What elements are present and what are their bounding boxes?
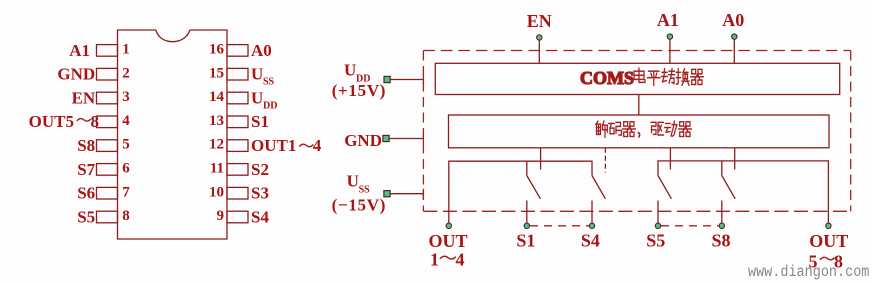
- svg-text:EN: EN: [72, 88, 96, 107]
- svg-text:(+15V): (+15V): [332, 81, 387, 100]
- svg-text:S1: S1: [516, 231, 535, 251]
- svg-text:U: U: [347, 172, 359, 191]
- svg-text:12: 12: [209, 137, 224, 153]
- svg-text:GND: GND: [57, 65, 95, 84]
- svg-text:S8: S8: [77, 136, 95, 155]
- svg-text:1: 1: [430, 250, 439, 270]
- svg-text:SS: SS: [263, 77, 275, 88]
- svg-text:13: 13: [209, 113, 224, 129]
- svg-text:2: 2: [122, 65, 130, 81]
- svg-text:A1: A1: [657, 10, 679, 30]
- svg-text:14: 14: [209, 89, 225, 105]
- svg-text:U: U: [251, 65, 263, 84]
- svg-text:S3: S3: [251, 184, 269, 203]
- svg-text:DD: DD: [263, 100, 277, 111]
- svg-text:S4: S4: [581, 231, 600, 251]
- svg-text:GND: GND: [344, 131, 382, 150]
- svg-text:15: 15: [209, 65, 224, 81]
- svg-text:OUT5: OUT5: [29, 112, 74, 131]
- svg-text:5: 5: [122, 137, 130, 153]
- svg-text:16: 16: [209, 42, 225, 58]
- svg-text:OUT: OUT: [809, 231, 848, 251]
- svg-text:4: 4: [456, 250, 465, 270]
- svg-text:1: 1: [122, 42, 130, 58]
- svg-text:S8: S8: [711, 231, 730, 251]
- svg-text:OUT: OUT: [428, 231, 467, 251]
- svg-text:www.diangon.com: www.diangon.com: [748, 264, 870, 281]
- svg-text:S1: S1: [251, 112, 269, 131]
- svg-text:S2: S2: [251, 160, 269, 179]
- svg-text:4: 4: [313, 136, 322, 155]
- svg-text:A0: A0: [722, 10, 744, 30]
- svg-text:SS: SS: [359, 185, 371, 196]
- svg-text:S5: S5: [646, 231, 665, 251]
- svg-text:S7: S7: [77, 160, 95, 179]
- svg-text:9: 9: [217, 208, 225, 224]
- svg-text:OUT1: OUT1: [251, 136, 296, 155]
- svg-text:4: 4: [122, 113, 130, 129]
- svg-text:3: 3: [122, 89, 130, 105]
- svg-text:U: U: [251, 88, 263, 107]
- svg-text:COMS: COMS: [580, 68, 634, 88]
- svg-text:EN: EN: [527, 11, 552, 31]
- svg-text:11: 11: [210, 161, 224, 177]
- svg-text:S5: S5: [77, 207, 95, 226]
- svg-text:A1: A1: [69, 41, 90, 60]
- svg-text:8: 8: [122, 208, 130, 224]
- svg-text:10: 10: [209, 184, 224, 200]
- svg-text:6: 6: [122, 161, 130, 177]
- svg-text:S4: S4: [251, 207, 269, 226]
- svg-text:8: 8: [91, 112, 100, 131]
- svg-text:A0: A0: [251, 41, 272, 60]
- svg-text:(−15V): (−15V): [332, 195, 387, 214]
- svg-text:7: 7: [122, 184, 130, 200]
- svg-text:U: U: [344, 60, 356, 79]
- svg-text:S6: S6: [77, 184, 95, 203]
